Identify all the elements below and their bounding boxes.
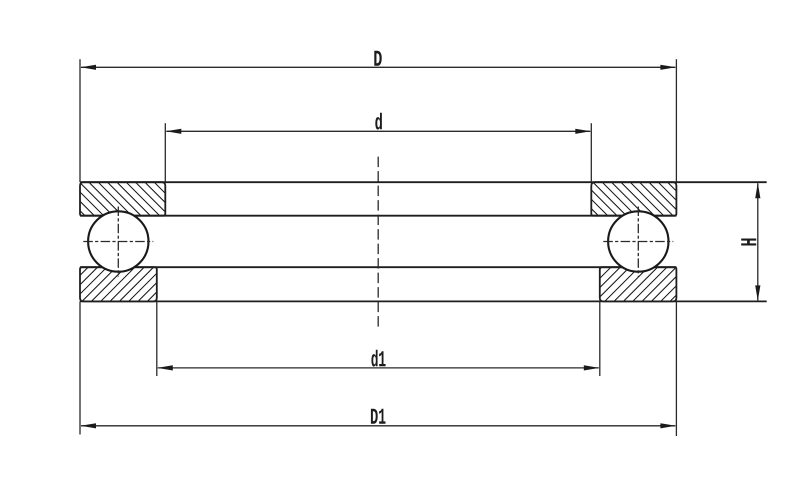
D1 dimension right extension line <box>675 301 677 436</box>
d dimension arrow left <box>166 129 182 134</box>
D1 dimension line <box>81 425 675 427</box>
vertical centerline axis <box>377 157 379 327</box>
H dimension line <box>757 183 759 300</box>
top washer top edge + H upper extension line <box>80 181 767 183</box>
ball right crosshair vertical <box>637 207 639 277</box>
D1 dimension arrow left <box>81 423 97 428</box>
d1 dimension arrow left <box>157 365 173 370</box>
ball left <box>88 211 148 271</box>
D dimension arrow left <box>81 65 97 70</box>
bottom washer bottom edge + H lower extension line <box>80 300 767 302</box>
D label <box>374 51 381 66</box>
D dimension right extension line <box>675 59 677 182</box>
ball left crosshair vertical <box>117 207 119 277</box>
d1 label <box>371 350 377 367</box>
ball right crosshair horizontal <box>603 241 673 243</box>
bottom washer top edge <box>80 266 676 268</box>
top washer hatched section left <box>80 182 165 216</box>
top washer hatched section right <box>591 182 676 216</box>
D1 dimension arrow right <box>660 423 676 428</box>
D dimension left extension line <box>79 59 81 182</box>
H dimension arrow bottom <box>755 285 760 301</box>
ball left crosshair horizontal <box>83 241 153 243</box>
bottom washer hatched section right <box>600 267 677 301</box>
top washer bottom edge <box>80 215 676 217</box>
D1 dimension left extension line <box>79 301 81 434</box>
d dimension left extension line <box>164 123 166 182</box>
d label <box>375 113 382 130</box>
d dimension right extension line <box>590 123 592 182</box>
bottom washer hatched section left <box>80 267 157 301</box>
D dimension line <box>81 66 675 68</box>
d dimension line <box>166 130 590 132</box>
H dimension arrow top <box>755 183 760 199</box>
d dimension arrow right <box>575 129 591 134</box>
H label <box>741 239 756 246</box>
d1 dimension line <box>158 367 599 369</box>
d1 dimension left extension line <box>156 301 158 376</box>
D dimension arrow right <box>660 65 676 70</box>
D1 label <box>371 409 378 424</box>
d1 dimension right extension line <box>599 301 601 376</box>
d1 dimension arrow right <box>584 365 600 370</box>
ball right <box>608 211 668 271</box>
